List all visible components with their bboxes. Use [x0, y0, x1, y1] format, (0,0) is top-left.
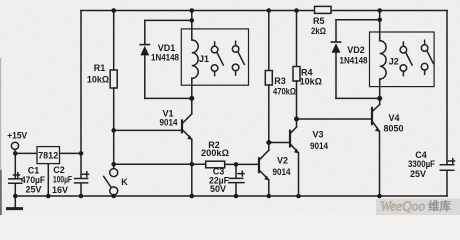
transistor V1 emitter	[182, 129, 192, 196]
diode VD2 cathode bar	[331, 41, 340, 43]
relay J1 coil	[192, 40, 198, 78]
diode VD2 leads	[335, 20, 337, 99]
wire resistor R3 branch upper	[268, 11, 270, 71]
switch K stub	[113, 164, 115, 168]
node ground V4 emitter	[377, 194, 382, 199]
scan edge artifact left	[0, 58, 1, 170]
wire right vertical upper	[446, 11, 448, 165]
transistor V4 collector	[372, 104, 380, 111]
wire VD2 top tap	[336, 19, 380, 21]
transistor V2 collector	[259, 143, 269, 161]
relay J2 contact 1 blade	[406, 52, 412, 65]
relay J2 contact 1 top circle	[400, 46, 407, 53]
wire node to 7812 input	[15, 152, 37, 154]
terminal +15V circle	[11, 142, 18, 149]
wire VD2 bottom tap	[336, 97, 380, 99]
resistor R3	[265, 71, 272, 86]
wire top rail	[81, 10, 447, 12]
resistor R4	[293, 67, 300, 82]
node rail J1 coil	[190, 8, 195, 13]
relay J2 contact 2 stub bottom	[424, 70, 426, 74]
capacitor C3 leads	[235, 164, 237, 196]
resistor R5	[315, 6, 332, 13]
relay J2 contact 1 bottom circle	[400, 65, 407, 72]
capacitor C1 polarity mark	[14, 173, 20, 178]
relay J2 box	[370, 32, 435, 87]
wire R3 to V2 collector node	[268, 85, 270, 143]
capacitor C2 plates	[75, 179, 88, 183]
transistor V2 base bar	[258, 158, 260, 172]
relay J2 contact 1 stub bottom	[402, 72, 404, 76]
wire 7812 ground pin	[47, 164, 49, 197]
wire V1 base	[114, 129, 182, 131]
resistor R1	[110, 70, 117, 88]
relay J1 contact 2 blade	[238, 52, 244, 65]
wire right vertical lower	[446, 171, 448, 197]
transistor V1 emitter arrow	[187, 135, 192, 140]
node +15V input	[13, 151, 18, 156]
wire bottom rail	[15, 195, 447, 197]
wire J2 coil branch from rail	[379, 11, 381, 41]
wire VD1 bottom tap	[145, 97, 192, 99]
node ground V1 emitter	[190, 194, 195, 199]
wire R1 to base node	[113, 88, 115, 164]
capacitor C2 leads	[80, 153, 82, 196]
wire R4 to node	[296, 81, 298, 119]
node VD2 top	[377, 18, 382, 23]
node VD1 bottom / V1 collector	[189, 96, 194, 101]
capacitor C2 polarity mark	[83, 172, 89, 177]
node rail J2 coil	[377, 8, 382, 13]
node ground K	[111, 194, 116, 199]
watermark background	[376, 199, 460, 215]
node VD2 bottom / V4 collector	[377, 96, 382, 101]
capacitor C4 plates	[440, 165, 453, 171]
transistor V1 collector	[182, 98, 192, 123]
wire coil bottom to V4 collector node	[379, 79, 381, 104]
capacitor C3 plates	[229, 178, 244, 182]
relay J2 contact 2 stub top	[424, 40, 426, 44]
transistor V3 emitter arrow	[294, 149, 299, 154]
node 7812 output	[79, 151, 84, 156]
relay J2 contact 2 top circle	[421, 45, 428, 52]
transistor V4 emitter arrow	[375, 127, 380, 132]
transistor V2 emitter arrow	[264, 176, 269, 181]
transistor V3 emitter	[290, 144, 299, 196]
wire terminal to node	[14, 149, 16, 153]
node V1 emitter R2 tap	[190, 162, 195, 167]
wire coil bottom to collector node	[191, 78, 193, 98]
switch K top contact	[110, 169, 118, 177]
relay J1 contact 2 stub bottom	[235, 71, 237, 75]
relay J2 contact 2 bottom circle	[421, 63, 428, 70]
switch K bottom contact	[110, 187, 118, 195]
ground	[14, 196, 16, 207]
relay J1 contact 1 stub bottom	[214, 72, 216, 76]
diode VD1 branch vertical from rail	[191, 11, 193, 41]
relay J2 contact 1 stub top	[402, 42, 404, 46]
wire resistor R1 branch upper	[113, 11, 115, 71]
node ground C1	[13, 194, 18, 199]
node ground C3	[234, 194, 239, 199]
node VD1 top	[190, 18, 195, 23]
diode VD2 triangle	[332, 43, 341, 53]
node ground 7812	[46, 194, 51, 199]
wire R2 to V2 base	[225, 163, 259, 165]
capacitor C1 plates	[9, 179, 22, 183]
transistor V1 base bar	[181, 121, 183, 133]
node ground V3 emitter	[296, 194, 301, 199]
diode VD1 cathode bar	[140, 44, 149, 46]
node rail R3	[267, 8, 272, 13]
wire V4 base	[297, 118, 373, 120]
diode VD1 leads	[144, 20, 146, 98]
relay J1 contact 2 top circle	[232, 46, 239, 53]
wire VD1 top tap	[145, 19, 192, 21]
regulator U1 7812 box	[37, 147, 60, 164]
relay J1 contact 2 stub top	[235, 41, 237, 45]
wire R2 net	[114, 163, 206, 165]
transistor V2 emitter	[259, 170, 269, 196]
capacitor C4 polarity mark	[449, 159, 455, 164]
transistor V4 emitter	[372, 121, 380, 196]
relay J2 contact 2 blade	[427, 51, 433, 64]
node ground V2 emitter	[267, 194, 272, 199]
diode VD1 triangle	[140, 46, 149, 56]
relay J2 coil	[380, 41, 386, 79]
switch K blade	[104, 176, 112, 187]
node ground C2	[79, 194, 84, 199]
node rail R1	[111, 8, 116, 13]
resistor R2	[206, 161, 225, 168]
transistor V4 base bar	[371, 108, 373, 124]
relay J1 contact 1 blade	[217, 52, 223, 65]
transistor V3 collector	[290, 119, 297, 134]
relay J1 contact 1 stub top	[214, 42, 216, 46]
transistor V3 base bar	[289, 131, 291, 147]
relay J1 contact 1 bottom circle	[211, 65, 218, 72]
relay J1 contact 1 top circle	[211, 46, 218, 53]
wire resistor R4 branch upper	[296, 11, 298, 67]
wire left vertical	[80, 11, 82, 154]
wire 7812 output	[60, 152, 82, 154]
node rail R4	[294, 8, 299, 13]
capacitor C3 polarity mark	[238, 171, 244, 176]
node C3 top	[234, 162, 239, 167]
wire V3 base	[269, 142, 290, 144]
node R3 V2 collector	[266, 140, 271, 145]
node R4 V3 collector	[294, 117, 299, 122]
node K tap	[111, 162, 116, 167]
relay J1 contact 2 bottom circle	[232, 64, 239, 71]
capacitor C1 leads	[14, 153, 16, 196]
relay J1 box	[181, 29, 248, 85]
node V1 base tap	[111, 128, 116, 133]
